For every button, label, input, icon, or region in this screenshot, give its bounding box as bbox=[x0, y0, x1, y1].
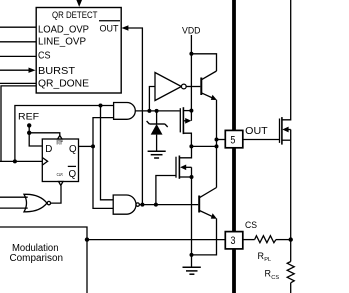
label RCS bbox=[265, 269, 280, 281]
wire AND output to gate of upper MOSFET bbox=[135, 110, 180, 112]
pin 3 box bbox=[225, 232, 243, 249]
wire LINE_OVP input bbox=[0, 41, 36, 43]
svg-text:5: 5 bbox=[230, 134, 235, 146]
wire inverter output to Q1 base bbox=[186, 86, 200, 88]
resistor RPL bbox=[255, 236, 276, 243]
pin label INIT bbox=[57, 140, 64, 145]
svg-text:CS: CS bbox=[245, 219, 257, 230]
node REF branch junction bbox=[27, 131, 31, 135]
svg-text:VDD: VDD bbox=[182, 25, 201, 36]
transistor M1 (P-channel driver) bbox=[180, 107, 191, 146]
inverter U5 bbox=[155, 73, 186, 101]
wire pin 5 to external MOSFET gate bbox=[244, 139, 280, 141]
wire LOAD_OVP input bbox=[0, 26, 36, 28]
svg-text:BURST: BURST bbox=[38, 66, 75, 77]
svg-text:QR_DONE: QR_DONE bbox=[38, 78, 89, 89]
node CS junction bbox=[289, 237, 293, 241]
wire top input into QR DETECT with down arrow bbox=[76, 0, 82, 7]
pin 5 box bbox=[225, 130, 243, 147]
wire Q output bbox=[79, 145, 94, 147]
wire QR_DONE branch down to NAND input bbox=[101, 106, 114, 200]
node emitter/source ground junction bbox=[190, 253, 194, 257]
wire CS input bbox=[0, 55, 36, 57]
label RPL bbox=[258, 251, 272, 263]
resistor RCS bbox=[287, 262, 294, 293]
wire CLK input net bbox=[0, 160, 42, 162]
svg-text:OUT: OUT bbox=[245, 126, 268, 137]
pin label OUT (active low, overbar) bbox=[99, 21, 120, 35]
wire QR_DONE input bbox=[0, 82, 36, 84]
wire CLK branch up to AND input bbox=[15, 106, 114, 162]
ground for driver bbox=[183, 267, 201, 274]
node CLK branch junction bbox=[13, 159, 17, 163]
svg-text:LOAD_OVP: LOAD_OVP bbox=[38, 24, 89, 35]
wire Q1 emitter down / Q2 collector up (OUT rail) bbox=[216, 100, 218, 188]
IC package boundary bus (thick) bbox=[232, 0, 236, 293]
svg-text:CS: CS bbox=[38, 51, 51, 62]
wire NOR input 1 bbox=[0, 196, 28, 198]
Modulation Comparison block U7 bbox=[0, 227, 87, 293]
wire REF vertical to D input bbox=[29, 125, 42, 146]
node VDD junction bbox=[189, 52, 193, 56]
wire BURST input with arrowhead bbox=[0, 68, 36, 73]
wire RPL to CS node bbox=[276, 239, 291, 241]
node junction OUT feedback on NAND output bbox=[140, 203, 144, 207]
node M1 source at VDD bbox=[189, 109, 193, 113]
ground for zener bbox=[148, 151, 166, 158]
node pin5 wire junction bbox=[215, 138, 219, 142]
svg-text:CLR: CLR bbox=[57, 172, 63, 177]
wire pin 3 to RPL bbox=[244, 239, 255, 241]
NAND gate U6 bbox=[113, 195, 139, 214]
node modulation output junction bbox=[85, 237, 89, 241]
svg-text:LINE_OVP: LINE_OVP bbox=[38, 36, 86, 47]
wire NOR output to CLR pin bbox=[51, 186, 61, 204]
node junction to zener bbox=[155, 109, 159, 113]
wire M2 source down to ground bbox=[191, 177, 193, 267]
transistor M3 (external power MOSFET) bbox=[280, 0, 291, 262]
svg-text:QR DETECT: QR DETECT bbox=[52, 10, 98, 21]
wire VDD to Q1 collector bbox=[191, 54, 216, 71]
transistor Q1 (NPN pull-up) bbox=[201, 71, 217, 100]
node REF terminal dot bbox=[27, 123, 31, 127]
NOR gate U3 bbox=[24, 194, 51, 212]
svg-text:Q: Q bbox=[69, 144, 77, 155]
svg-text:CS: CS bbox=[271, 275, 279, 281]
svg-text:OUT: OUT bbox=[100, 24, 119, 35]
svg-text:Q: Q bbox=[69, 169, 77, 180]
wire to pin 5 bbox=[217, 139, 226, 141]
transistor M2 (N-channel driver) bbox=[176, 146, 192, 178]
svg-text:PL: PL bbox=[264, 257, 271, 263]
D flip-flop U2 bbox=[42, 136, 78, 186]
wire modulation output to pin 3 bbox=[87, 239, 225, 241]
node junction on QR_DONE branch bbox=[99, 104, 103, 108]
transistor Q2 (NPN pull-down) bbox=[199, 188, 217, 219]
svg-text:3: 3 bbox=[231, 235, 236, 247]
wire Q to NAND input bbox=[93, 146, 113, 208]
node Q junction bbox=[91, 144, 95, 148]
wire REF branch to INIT pin bbox=[29, 133, 60, 136]
wire M2 gate from NAND output bbox=[156, 176, 176, 205]
svg-text:REF: REF bbox=[18, 112, 39, 123]
zener diode D1 bbox=[147, 111, 168, 151]
QR DETECT block U1 bbox=[36, 8, 121, 94]
node OUT junction right bbox=[215, 144, 219, 148]
label Q-bar bbox=[68, 166, 77, 180]
wire OUT node horizontal (drains to emitter rail) bbox=[191, 145, 216, 147]
node OUT junction left bbox=[189, 144, 193, 148]
node M2 gate junction bbox=[154, 203, 158, 207]
wire Q2 emitter down bbox=[192, 219, 217, 255]
AND gate U4 (3-input) bbox=[114, 103, 136, 120]
node junction to inverter input bbox=[147, 109, 151, 113]
wire QR_DONE branch down to gates bbox=[1, 86, 36, 161]
wire NOR input 2 bbox=[0, 207, 28, 209]
wire Q to AND input bbox=[93, 118, 114, 147]
wire OUT feedback from driver to QR DETECT with arrowhead bbox=[121, 25, 142, 204]
wire NAND output to Q2 base bbox=[139, 204, 198, 206]
svg-text:D: D bbox=[45, 144, 52, 155]
node M2 source junction bbox=[190, 175, 194, 179]
svg-text:Comparison: Comparison bbox=[10, 253, 64, 264]
wire VDD rail bbox=[190, 35, 192, 111]
wire to inverter input bbox=[149, 87, 155, 111]
